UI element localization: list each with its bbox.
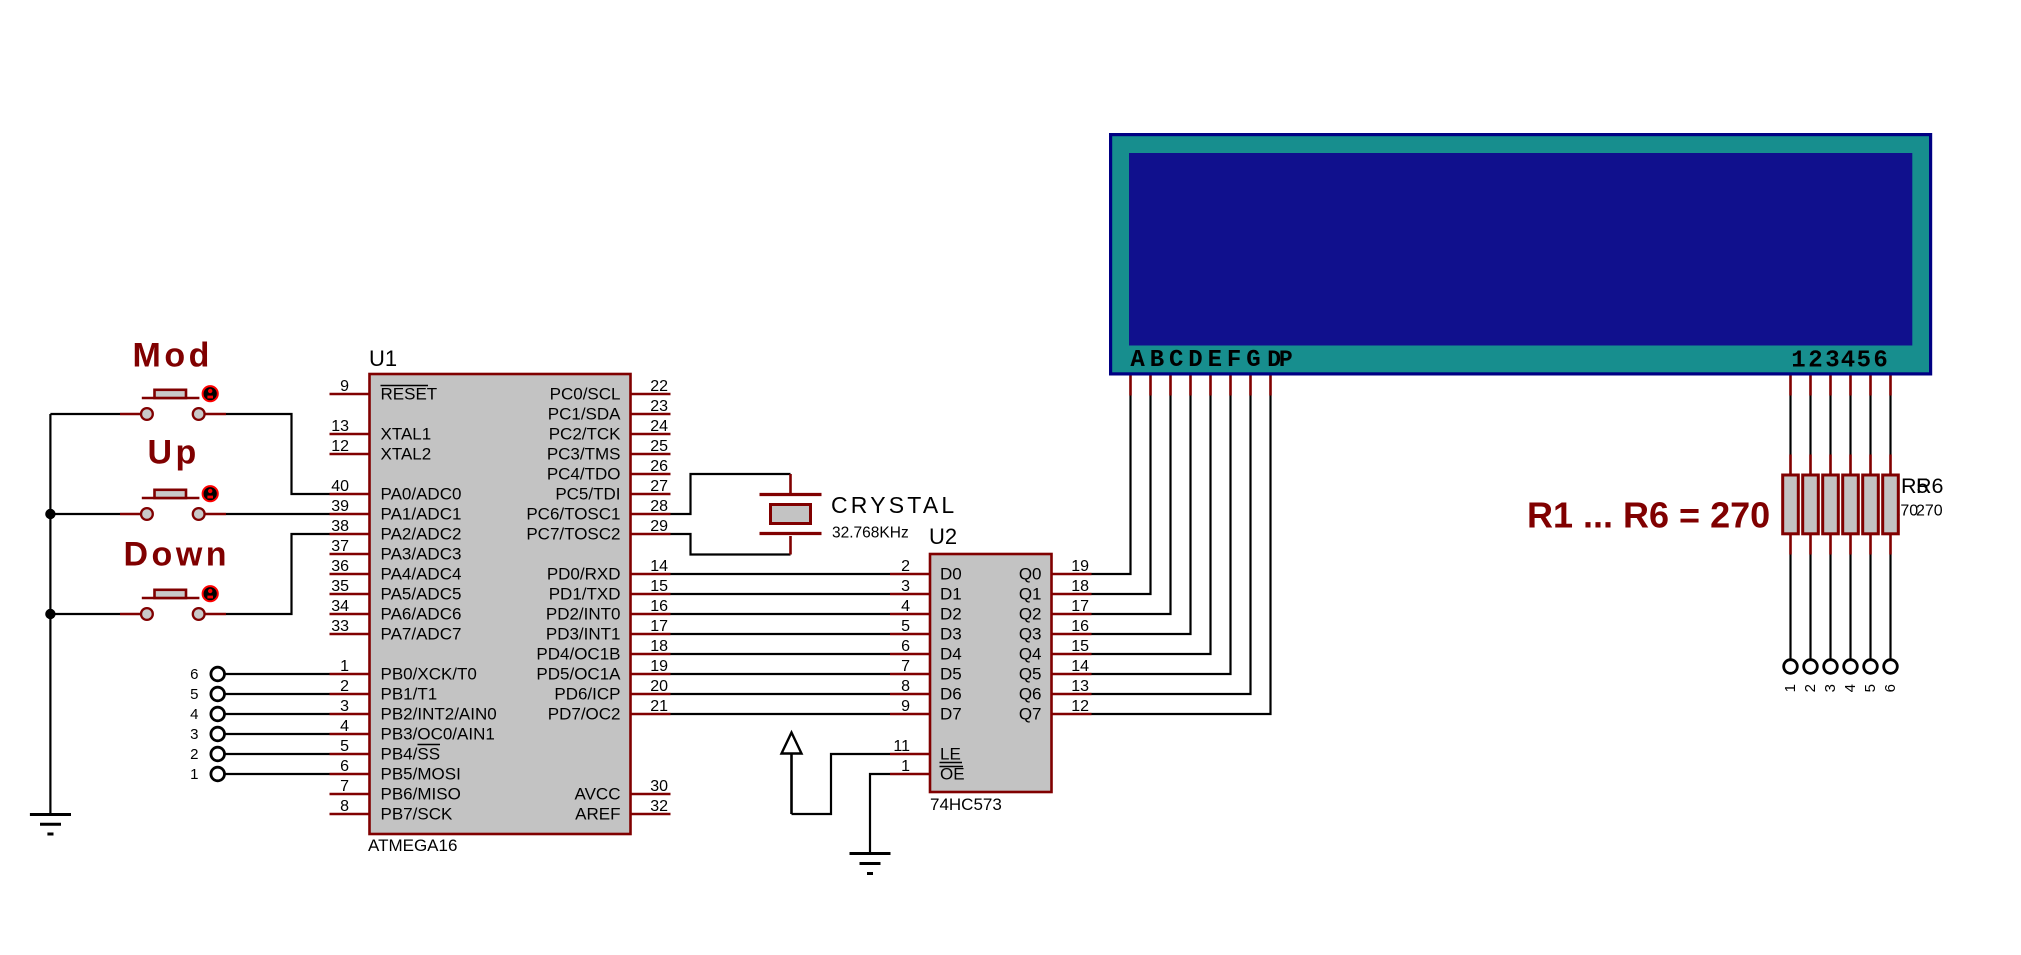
U2 pin 7 (D5) [890, 658, 962, 684]
svg-text:34: 34 [331, 598, 349, 615]
svg-text:PD1/TXD: PD1/TXD [549, 585, 621, 604]
svg-text:AREF: AREF [575, 805, 620, 824]
wire Down right to PA2 [226, 534, 330, 614]
svg-text:PC4/TDO: PC4/TDO [547, 465, 621, 484]
svg-text:16: 16 [650, 598, 668, 615]
display digit pin 2 [1808, 348, 1822, 396]
svg-text:4: 4 [1841, 348, 1855, 375]
svg-text:38: 38 [331, 518, 349, 535]
svg-text:XTAL2: XTAL2 [381, 445, 432, 464]
svg-text:CRYSTAL: CRYSTAL [831, 492, 957, 518]
terminal 3 (PB wire) [190, 726, 329, 743]
U1 pin 29 (PC7/TOSC2) [526, 518, 670, 544]
svg-text:270: 270 [1916, 503, 1943, 520]
terminal 2 (PB wire) [190, 746, 329, 763]
svg-text:14: 14 [1071, 658, 1089, 675]
U1 pin 19 (PD5/OC1A) [536, 658, 670, 684]
svg-text:5: 5 [901, 618, 910, 635]
svg-text:40: 40 [331, 478, 349, 495]
terminal 1 (PB wire) [190, 766, 329, 783]
svg-text:1: 1 [340, 658, 349, 675]
svg-text:6: 6 [901, 638, 910, 655]
display digit pin 4 [1841, 348, 1855, 396]
svg-text:OE: OE [940, 765, 965, 784]
ground (U2 OE) [850, 854, 891, 874]
svg-text:13: 13 [1071, 678, 1089, 695]
display segment pin A [1130, 347, 1145, 396]
crystal CRYSTAL [760, 474, 822, 555]
svg-text:4: 4 [1842, 684, 1859, 692]
svg-text:F: F [1227, 347, 1241, 374]
svg-text:5: 5 [1862, 684, 1879, 692]
svg-text:R1 ... R6 = 270: R1 ... R6 = 270 [1527, 495, 1770, 536]
U1 pin 15 (PD1/TXD) [549, 578, 671, 604]
svg-text:RESET: RESET [381, 385, 438, 404]
U1 pin 3 (PB2/INT2/AIN0) [330, 698, 497, 724]
svg-text:Q3: Q3 [1019, 625, 1042, 644]
svg-text:PB2/INT2/AIN0: PB2/INT2/AIN0 [381, 705, 497, 724]
display segment pin D [1188, 347, 1202, 396]
wire Mod right to PA0 [226, 414, 330, 494]
svg-text:17: 17 [1071, 598, 1089, 615]
svg-text:D6: D6 [940, 685, 962, 704]
svg-text:9: 9 [901, 698, 910, 715]
push button Up [120, 486, 226, 520]
svg-text:PD6/ICP: PD6/ICP [554, 685, 620, 704]
svg-text:2: 2 [901, 558, 910, 575]
svg-text:39: 39 [331, 498, 349, 515]
U2 pin 5 (D3) [890, 618, 962, 644]
svg-text:PC7/TOSC2: PC7/TOSC2 [526, 525, 620, 544]
svg-text:28: 28 [650, 498, 668, 515]
svg-text:PA0/ADC0: PA0/ADC0 [381, 485, 462, 504]
svg-text:R6: R6 [1916, 474, 1944, 498]
wire Q2 to segment C [1092, 396, 1171, 615]
svg-text:21: 21 [650, 698, 668, 715]
U2 pin 4 (D2) [890, 598, 962, 624]
wire Q7 to segment DP [1092, 396, 1271, 715]
svg-text:PC1/SDA: PC1/SDA [548, 405, 621, 424]
wire Q0 to segment A [1092, 396, 1131, 575]
wire PD5 to D5 [671, 673, 891, 675]
svg-text:29: 29 [650, 518, 668, 535]
display LED1 body [1109, 133, 1932, 376]
wire PD6 to D6 [671, 693, 891, 695]
terminal 1 (digit) [1782, 660, 1799, 693]
svg-text:16: 16 [1071, 618, 1089, 635]
U2 pin 11 (LE) [890, 738, 962, 764]
wire PD2 to D2 [671, 613, 891, 615]
svg-text:PA1/ADC1: PA1/ADC1 [381, 505, 462, 524]
svg-text:U2: U2 [929, 524, 957, 549]
svg-text:PD2/INT0: PD2/INT0 [546, 605, 621, 624]
wire power to LE [792, 754, 891, 814]
U2 pin 8 (D6) [890, 678, 962, 704]
U1 pin 5 (PB4/SS) [330, 738, 441, 764]
resistor R5 [1863, 396, 1879, 660]
U2 pin 9 (D7) [890, 698, 962, 724]
U2 pin 18 (Q1) [1019, 578, 1092, 604]
svg-text:PC0/SCL: PC0/SCL [550, 385, 621, 404]
U1 pin 37 (PA3/ADC3) [330, 538, 462, 564]
svg-text:32: 32 [650, 798, 668, 815]
svg-text:13: 13 [331, 418, 349, 435]
U2 pin 3 (D1) [890, 578, 962, 604]
U2 pin 12 (Q7) [1019, 698, 1092, 724]
svg-text:17: 17 [650, 618, 668, 635]
svg-text:3: 3 [901, 578, 910, 595]
U1 pin 6 (PB5/MOSI) [330, 758, 461, 784]
U1 pin 32 (AREF) [575, 798, 670, 824]
resistor R6 [1883, 396, 1899, 660]
U1 pin 33 (PA7/ADC7) [330, 618, 462, 644]
svg-text:ATMEGA16: ATMEGA16 [368, 836, 457, 855]
terminal 6 (PB wire) [190, 666, 329, 683]
svg-text:37: 37 [331, 538, 349, 555]
svg-text:PD3/INT1: PD3/INT1 [546, 625, 621, 644]
svg-text:2: 2 [190, 746, 198, 763]
wire Q4 to segment E [1092, 396, 1211, 655]
svg-text:12: 12 [1071, 698, 1089, 715]
terminal 2 (digit) [1802, 660, 1819, 693]
svg-text:PB1/T1: PB1/T1 [381, 685, 438, 704]
U1 pin 14 (PD0/RXD) [547, 558, 671, 584]
U1 pin 16 (PD2/INT0) [546, 598, 671, 624]
U1 pin 34 (PA6/ADC6) [330, 598, 462, 624]
wire PD4 to D4 [671, 653, 891, 655]
wire PD0 to D0 [671, 573, 891, 575]
display digit pin 6 [1873, 348, 1890, 396]
svg-text:15: 15 [1071, 638, 1089, 655]
svg-text:XTAL1: XTAL1 [381, 425, 432, 444]
terminal 4 (PB wire) [190, 706, 329, 723]
svg-text:25: 25 [650, 438, 668, 455]
terminal 6 (digit) [1882, 660, 1899, 693]
svg-text:PC2/TCK: PC2/TCK [549, 425, 621, 444]
svg-text:PD4/OC1B: PD4/OC1B [536, 645, 620, 664]
svg-text:D2: D2 [940, 605, 962, 624]
svg-text:PA5/ADC5: PA5/ADC5 [381, 585, 462, 604]
svg-text:PC3/TMS: PC3/TMS [547, 445, 621, 464]
svg-text:15: 15 [650, 578, 668, 595]
U1 pin 2 (PB1/T1) [330, 678, 438, 704]
svg-text:Q2: Q2 [1019, 605, 1042, 624]
U1 pin 22 (PC0/SCL) [550, 378, 671, 404]
terminal 4 (digit) [1842, 660, 1859, 693]
svg-text:U1: U1 [369, 346, 397, 371]
U1 pin 30 (AVCC) [575, 778, 671, 804]
junction dot (Down/rail) [45, 609, 55, 619]
svg-text:8: 8 [901, 678, 910, 695]
display segment pin E [1208, 347, 1222, 396]
U1 pin 20 (PD6/ICP) [554, 678, 670, 704]
U2 pin 2 (D0) [890, 558, 962, 584]
display segment pin DP [1267, 347, 1292, 396]
wire GND rail left [49, 414, 51, 815]
terminal 5 (digit) [1862, 660, 1879, 693]
U1 pin 12 (XTAL2) [330, 438, 432, 464]
svg-text:D5: D5 [940, 665, 962, 684]
U2 pin 1 (OE) [890, 758, 965, 784]
svg-text:PA2/ADC2: PA2/ADC2 [381, 525, 462, 544]
svg-text:D7: D7 [940, 705, 962, 724]
svg-text:G: G [1246, 347, 1260, 374]
wire Up left [50, 513, 120, 515]
svg-text:PA7/ADC7: PA7/ADC7 [381, 625, 462, 644]
svg-text:PD5/OC1A: PD5/OC1A [536, 665, 621, 684]
display digit pin 1 [1791, 348, 1806, 396]
svg-text:6: 6 [1873, 348, 1887, 375]
wire PD1 to D1 [671, 593, 891, 595]
push button Mod [120, 386, 226, 420]
resistor R4 [1843, 396, 1859, 660]
resistor R1 [1783, 396, 1799, 660]
svg-text:Q7: Q7 [1019, 705, 1042, 724]
svg-text:4: 4 [190, 706, 198, 723]
svg-text:D: D [1188, 347, 1202, 374]
push button Down [120, 586, 226, 620]
U1 pin 40 (PA0/ADC0) [330, 478, 462, 504]
U1 pin 8 (PB7/SCK) [330, 798, 453, 824]
U2 pin 6 (D4) [890, 638, 962, 664]
svg-text:PB6/MISO: PB6/MISO [381, 785, 461, 804]
svg-text:22: 22 [650, 378, 668, 395]
svg-text:E: E [1208, 347, 1222, 374]
U2 pin 15 (Q4) [1019, 638, 1092, 664]
U1 pin 28 (PC6/TOSC1) [526, 498, 670, 524]
svg-text:2: 2 [1808, 348, 1822, 375]
U1 pin 13 (XTAL1) [330, 418, 432, 444]
U1 pin 7 (PB6/MISO) [330, 778, 461, 804]
svg-text:P: P [1279, 347, 1293, 373]
terminal 3 (digit) [1822, 660, 1839, 693]
svg-text:5: 5 [340, 738, 349, 755]
U2 body [930, 554, 1052, 792]
U1 pin 17 (PD3/INT1) [546, 618, 671, 644]
svg-text:11: 11 [893, 738, 910, 755]
svg-text:35: 35 [331, 578, 349, 595]
svg-text:PA6/ADC6: PA6/ADC6 [381, 605, 462, 624]
svg-text:C: C [1169, 347, 1183, 374]
svg-text:20: 20 [650, 678, 668, 695]
junction dot (Up/rail) [45, 509, 55, 519]
svg-text:PB3/OC0/AIN1: PB3/OC0/AIN1 [381, 725, 495, 744]
svg-text:PC5/TDI: PC5/TDI [555, 485, 620, 504]
wire Q3 to segment D [1092, 396, 1191, 635]
U1 pin 21 (PD7/OC2) [548, 698, 671, 724]
terminal 5 (PB wire) [190, 686, 329, 703]
U1 pin 23 (PC1/SDA) [548, 398, 671, 424]
svg-text:D1: D1 [940, 585, 962, 604]
U2 pin 17 (Q2) [1019, 598, 1092, 624]
svg-text:3: 3 [340, 698, 349, 715]
svg-text:D4: D4 [940, 645, 962, 664]
svg-text:3: 3 [190, 726, 198, 743]
svg-text:7: 7 [340, 778, 349, 795]
wire PC7 to crystal bottom [671, 534, 791, 555]
svg-text:30: 30 [650, 778, 668, 795]
U2 pin 13 (Q6) [1019, 678, 1092, 704]
svg-text:3: 3 [1825, 348, 1839, 375]
resistor R3 [1823, 396, 1839, 660]
U1 pin 39 (PA1/ADC1) [330, 498, 462, 524]
display digit pin 5 [1857, 348, 1871, 396]
U1 pin 36 (PA4/ADC4) [330, 558, 462, 584]
svg-text:4: 4 [901, 598, 910, 615]
U1 pin 24 (PC2/TCK) [549, 418, 671, 444]
svg-text:6: 6 [340, 758, 349, 775]
svg-text:14: 14 [650, 558, 668, 575]
display segment pin C [1169, 347, 1183, 396]
svg-text:36: 36 [331, 558, 349, 575]
U1 pin 38 (PA2/ADC2) [330, 518, 462, 544]
svg-text:PB5/MOSI: PB5/MOSI [381, 765, 461, 784]
svg-text:Q5: Q5 [1019, 665, 1042, 684]
svg-text:1: 1 [190, 766, 198, 783]
svg-text:3: 3 [1822, 684, 1839, 692]
ground (left) [30, 815, 71, 835]
svg-text:Up: Up [148, 434, 200, 472]
display segment pin B [1150, 347, 1164, 396]
svg-text:1: 1 [1791, 348, 1805, 375]
wire Up right to PA1 [226, 513, 330, 515]
U2 pin 16 (Q3) [1019, 618, 1092, 644]
svg-text:PB4/SS: PB4/SS [381, 745, 441, 764]
svg-text:PA4/ADC4: PA4/ADC4 [381, 565, 462, 584]
svg-text:Q0: Q0 [1019, 565, 1042, 584]
svg-text:1: 1 [901, 758, 910, 775]
display segment pin G [1246, 347, 1260, 396]
display digit pin 3 [1825, 348, 1839, 396]
wire PC6 to crystal top [671, 474, 791, 514]
svg-text:D0: D0 [940, 565, 962, 584]
wire Down left [50, 613, 120, 615]
svg-text:5: 5 [190, 686, 198, 703]
svg-text:2: 2 [1802, 684, 1819, 692]
svg-text:A: A [1130, 347, 1145, 374]
svg-text:8: 8 [340, 798, 349, 815]
svg-text:Down: Down [124, 536, 231, 574]
wire Q6 to segment G [1092, 396, 1251, 695]
svg-text:D3: D3 [940, 625, 962, 644]
svg-text:33: 33 [331, 618, 349, 635]
wire Q1 to segment B [1092, 396, 1151, 595]
U1 body [370, 374, 631, 834]
svg-text:18: 18 [650, 638, 668, 655]
svg-text:PD7/OC2: PD7/OC2 [548, 705, 621, 724]
svg-text:1: 1 [1782, 684, 1799, 692]
svg-text:23: 23 [650, 398, 668, 415]
U1 pin 9 (RESET) [330, 378, 438, 404]
U1 pin 18 (PD4/OC1B) [536, 638, 670, 664]
svg-text:2: 2 [340, 678, 349, 695]
display segment pin F [1227, 347, 1241, 396]
power symbol (arrow up) [782, 733, 802, 815]
svg-text:Mod: Mod [133, 337, 213, 375]
svg-text:19: 19 [1071, 558, 1089, 575]
svg-text:PB0/XCK/T0: PB0/XCK/T0 [381, 665, 477, 684]
svg-text:Q6: Q6 [1019, 685, 1042, 704]
svg-text:32.768KHz: 32.768KHz [832, 525, 909, 542]
U1 pin 27 (PC5/TDI) [555, 478, 670, 504]
U1 pin 1 (PB0/XCK/T0) [330, 658, 477, 684]
svg-text:7: 7 [901, 658, 910, 675]
svg-text:74HC573: 74HC573 [930, 795, 1002, 814]
svg-text:12: 12 [331, 438, 349, 455]
resistor R2 [1803, 396, 1819, 660]
U1 pin 25 (PC3/TMS) [547, 438, 671, 464]
svg-text:9: 9 [340, 378, 349, 395]
U1 pin 35 (PA5/ADC5) [330, 578, 462, 604]
svg-text:27: 27 [650, 478, 668, 495]
svg-text:26: 26 [650, 458, 668, 475]
svg-text:PA3/ADC3: PA3/ADC3 [381, 545, 462, 564]
U1 pin 26 (PC4/TDO) [547, 458, 671, 484]
svg-text:B: B [1150, 347, 1164, 374]
svg-text:Q1: Q1 [1019, 585, 1042, 604]
svg-text:PC6/TOSC1: PC6/TOSC1 [526, 505, 620, 524]
svg-text:LE: LE [940, 745, 961, 764]
svg-text:6: 6 [190, 666, 198, 683]
wire OE to ground [870, 774, 890, 852]
svg-text:24: 24 [650, 418, 668, 435]
wire Mod left [50, 413, 120, 415]
U1 pin 4 (PB3/OC0/AIN1) [330, 718, 495, 744]
svg-text:4: 4 [340, 718, 349, 735]
svg-text:6: 6 [1882, 684, 1899, 692]
svg-text:PD0/RXD: PD0/RXD [547, 565, 621, 584]
svg-text:19: 19 [650, 658, 668, 675]
svg-text:18: 18 [1071, 578, 1089, 595]
wire PD7 to D7 [671, 713, 891, 715]
svg-text:PB7/SCK: PB7/SCK [381, 805, 453, 824]
U2 pin 19 (Q0) [1019, 558, 1092, 584]
wire Q5 to segment F [1092, 396, 1231, 675]
svg-text:5: 5 [1857, 348, 1871, 375]
svg-text:AVCC: AVCC [575, 785, 621, 804]
svg-text:Q4: Q4 [1019, 645, 1042, 664]
U2 pin 14 (Q5) [1019, 658, 1092, 684]
wire PD3 to D3 [671, 633, 891, 635]
